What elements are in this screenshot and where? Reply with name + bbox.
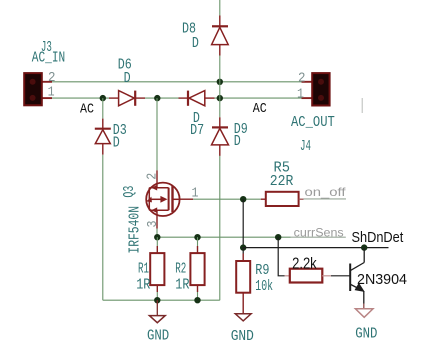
svg-text:J4: J4 xyxy=(300,139,311,155)
svg-text:R1: R1 xyxy=(138,261,149,277)
svg-text:Q3: Q3 xyxy=(122,186,138,198)
wire R5 junction down to R9 (black) xyxy=(242,199,244,247)
svg-text:AC_IN: AC_IN xyxy=(32,51,65,67)
svg-text:IRF540N: IRF540N xyxy=(128,206,144,254)
resistor R9 xyxy=(236,248,250,314)
svg-text:2: 2 xyxy=(144,173,160,180)
wire on_off (gray net) xyxy=(304,198,347,200)
wire currSens line xyxy=(157,236,290,238)
node junction R9 top xyxy=(240,244,246,250)
svg-text:D: D xyxy=(113,136,120,152)
svg-text:3: 3 xyxy=(145,221,161,228)
diode D7 xyxy=(179,91,215,106)
diode D6 xyxy=(109,91,145,106)
svg-text:2: 2 xyxy=(48,70,56,86)
resistor R1 xyxy=(150,237,164,300)
svg-text:GND: GND xyxy=(147,329,169,345)
ground (R9) xyxy=(235,314,251,321)
wire J4 pin2 stub xyxy=(302,81,313,83)
svg-text:R2: R2 xyxy=(175,261,186,277)
svg-text:2: 2 xyxy=(298,71,306,87)
node AC junction right xyxy=(217,95,223,101)
svg-text:currSens: currSens xyxy=(294,226,344,240)
ground (emitter, pink) xyxy=(355,309,373,318)
node junction 2.2k branch xyxy=(275,234,281,240)
svg-text:1: 1 xyxy=(48,85,55,101)
resistor R5 xyxy=(261,192,304,206)
svg-text:on_off: on_off xyxy=(305,185,347,199)
wire D8 column xyxy=(219,0,221,16)
wire AC main line xyxy=(52,97,109,99)
transistor Q3 (IRF540N MOSFET) xyxy=(146,183,179,216)
node AC junction mid xyxy=(154,95,160,101)
connector J3 xyxy=(24,73,42,105)
svg-text:D: D xyxy=(234,134,241,150)
wire J3 pin1 stub xyxy=(42,97,52,99)
resistor 2.2k xyxy=(285,269,332,283)
diode D8 xyxy=(212,26,229,44)
svg-text:ShDnDet: ShDnDet xyxy=(352,229,404,246)
connector J4 xyxy=(312,73,329,105)
ground (rail) xyxy=(149,316,165,323)
svg-text:1: 1 xyxy=(297,87,304,103)
wire 2.2k branch (black) xyxy=(278,237,284,276)
svg-text:AC: AC xyxy=(253,101,267,117)
wire bottom rail xyxy=(103,299,220,301)
svg-text:D8: D8 xyxy=(182,21,196,37)
node collector junction xyxy=(361,244,367,250)
svg-text:2.2k: 2.2k xyxy=(292,255,317,272)
svg-text:D7: D7 xyxy=(190,123,204,139)
transistor Q 2N3904 xyxy=(350,248,364,304)
node junction R2 xyxy=(194,234,200,240)
resistor R2 xyxy=(190,237,204,300)
wire top net J3 pin2 to J4 pin2 xyxy=(52,81,302,83)
svg-text:D: D xyxy=(192,36,199,52)
wire base (black) xyxy=(331,275,350,277)
svg-text:10k: 10k xyxy=(255,279,273,295)
wire J3 pin2 stub xyxy=(42,81,52,83)
svg-text:AC: AC xyxy=(80,102,94,118)
wire B to transistor collector (black) xyxy=(243,247,388,249)
wire J4 pin1 stub xyxy=(302,97,313,99)
svg-text:GND: GND xyxy=(355,327,377,343)
wire MOSFET source pin xyxy=(156,210,158,228)
wire GND pin left xyxy=(156,300,158,315)
node AC junction left xyxy=(100,95,106,101)
node gate junction xyxy=(240,196,246,202)
wire D3 column xyxy=(102,98,104,119)
svg-text:R9: R9 xyxy=(255,263,269,279)
wire emitter pin xyxy=(363,304,365,309)
node rail R2 xyxy=(194,297,200,303)
wire MOSFET gate pin xyxy=(180,198,194,200)
node top net junction xyxy=(217,79,223,85)
svg-text:D: D xyxy=(124,71,131,87)
svg-text:GND: GND xyxy=(231,329,254,345)
diode D9 xyxy=(212,127,229,144)
svg-text:AC_OUT: AC_OUT xyxy=(291,115,335,131)
wire MOSFET drain column xyxy=(156,98,158,170)
svg-text:1R: 1R xyxy=(175,277,189,293)
wire D9 column xyxy=(219,98,221,117)
node rail R1 xyxy=(154,297,160,303)
svg-text:2N3904: 2N3904 xyxy=(357,271,407,288)
stray cursor mark xyxy=(361,98,363,113)
svg-text:22R: 22R xyxy=(270,174,294,190)
svg-text:1R: 1R xyxy=(136,277,150,293)
wire gate to R5 xyxy=(193,198,261,200)
diode D3 xyxy=(95,129,111,144)
node source junction R1 xyxy=(154,234,160,240)
